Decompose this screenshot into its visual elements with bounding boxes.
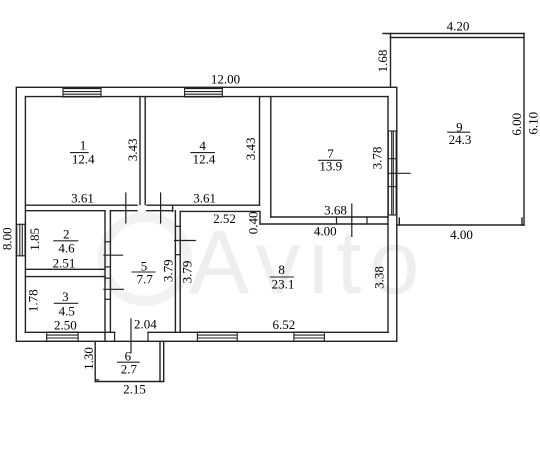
room 6 divider line [117,361,140,363]
svg-text:3.61: 3.61 [193,191,216,206]
svg-text:Avito: Avito [189,213,427,313]
svg-text:3.38: 3.38 [371,266,386,289]
svg-text:3.43: 3.43 [125,139,140,162]
svg-text:0.40: 0.40 [246,211,261,234]
svg-text:4.5: 4.5 [59,303,75,318]
svg-text:4.00: 4.00 [314,224,337,239]
wall between room 1 and room 4 [139,97,141,205]
window bottom wall room 8 left [197,331,237,333]
corridor top right tick [172,205,174,211]
svg-text:3: 3 [62,289,69,304]
door leaf room 1 [125,193,127,223]
svg-text:3.79: 3.79 [161,259,176,282]
room 4 divider line [190,152,215,154]
porch door leaf [130,319,132,353]
door room 8: jambs [175,225,180,227]
wall between room 4 and room 7 [259,97,261,206]
inner wall top [25,96,388,98]
porch right wall [159,341,161,381]
annex left wall [390,34,392,88]
room 9 divider line [447,131,470,133]
room 3 divider line [54,302,79,304]
room 2 divider line [53,240,78,242]
svg-text:6.10: 6.10 [525,112,540,135]
svg-text:2.15: 2.15 [123,382,146,397]
wall between rooms 2 and 3 [25,268,105,270]
door room 3: jambs [105,277,110,279]
svg-text:12.4: 12.4 [193,151,216,166]
svg-text:24.3: 24.3 [449,132,472,147]
svg-text:2.7: 2.7 [121,362,138,377]
svg-text:2.50: 2.50 [54,317,77,332]
window 7/9 dim tick [388,172,410,174]
svg-text:3.79: 3.79 [179,261,194,284]
svg-text:2.04: 2.04 [134,317,157,332]
room 7 bottom edge [271,216,388,218]
door room 3: leaf [104,288,124,290]
door leaf room 4 [160,193,162,223]
inner wall left [24,97,26,333]
window top wall room 1 [63,88,101,90]
door rooms 7-8: leaf [351,204,353,236]
svg-text:1.30: 1.30 [81,347,96,370]
porch bottom wall [95,381,164,383]
window left wall room 2 [16,224,18,256]
svg-text:4.00: 4.00 [450,227,473,242]
room 1 divider line [70,152,89,154]
svg-text:1.78: 1.78 [25,289,40,312]
porch door jambs [114,332,116,341]
svg-text:7.7: 7.7 [137,272,154,287]
outer wall main building [16,87,397,341]
door rooms 7-8: jambs [336,217,338,224]
svg-text:23.1: 23.1 [272,276,295,291]
room 5 divider line [132,271,156,273]
svg-text:1.85: 1.85 [27,228,42,251]
svg-text:4.20: 4.20 [447,19,470,34]
window bottom wall room 3 [47,331,78,333]
annex room 9 top wall [383,33,524,35]
svg-text:1: 1 [80,137,87,152]
annex bottom dim tick right [521,218,523,225]
room 8 top edge right part [260,223,388,225]
svg-text:3.61: 3.61 [71,191,94,206]
svg-text:2.51: 2.51 [53,256,76,271]
niche riser [259,211,261,224]
door room 2: leaf [104,254,123,256]
wall right of rooms 2,3 [104,211,106,342]
room 7 divider line [318,159,343,161]
svg-text:12.00: 12.00 [211,72,240,87]
svg-text:2: 2 [63,227,70,242]
annex bottom wall [397,224,524,226]
door room 8: leaf [175,240,196,242]
svg-text:13.9: 13.9 [319,159,342,174]
svg-text:8.00: 8.00 [0,227,14,250]
svg-text:3.43: 3.43 [243,137,258,160]
inner wall right [387,97,389,333]
svg-text:3.78: 3.78 [369,147,384,170]
porch corner tick [95,379,98,381]
watermark circle [103,217,187,301]
svg-text:6.52: 6.52 [273,317,296,332]
window wall rooms 7/9 [387,131,389,215]
window top wall room 4 [185,88,223,90]
wall rooms1/4 vs rooms below, top line [25,204,137,206]
svg-text:12.4: 12.4 [72,151,95,166]
annex right wall [523,34,525,226]
wall rooms1/4 vs rooms below, bottom line [25,210,105,212]
wall between room 5 and room 8 [174,211,176,333]
door room 2: jambs [105,241,110,243]
porch left wall [94,341,96,381]
svg-text:2.52: 2.52 [213,211,236,226]
room 8 divider line [270,276,294,278]
annex bottom dim tick left [398,218,400,225]
svg-text:3.68: 3.68 [324,203,347,218]
inner wall bottom [25,331,114,333]
svg-text:1.68: 1.68 [375,50,390,73]
niche top line room 8 [180,210,259,212]
svg-text:8: 8 [278,262,285,277]
svg-text:6.00: 6.00 [509,113,524,136]
window bottom wall room 8 right [294,331,325,333]
svg-text:4.6: 4.6 [58,240,75,255]
